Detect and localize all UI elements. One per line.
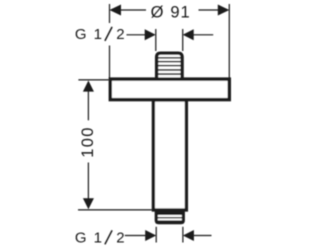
bottom thread slit 2 — [158, 218, 182, 220]
arrowhead 100 top up-pointing — [83, 81, 94, 92]
top thread stub outline — [157, 53, 183, 79]
ext line thread left — [155, 29, 157, 51]
thread line 3 — [158, 65, 182, 67]
thread line 2 — [158, 61, 182, 63]
svg-text:1: 1 — [94, 229, 102, 246]
arrowhead thread right left-pointing — [183, 29, 194, 40]
ext line bottom thread right — [182, 227, 184, 243]
svg-text:G: G — [75, 229, 87, 246]
ext line ceiling plane — [78, 79, 108, 81]
ext line pipe end — [78, 209, 152, 211]
arrowhead 100 bottom down-pointing — [83, 198, 94, 209]
svg-text:2: 2 — [116, 26, 124, 43]
arrowhead bottom left-pointing — [183, 230, 194, 241]
leader line G1/2 bottom — [125, 235, 146, 237]
svg-text:9: 9 — [170, 4, 179, 22]
tail line bottom right — [193, 235, 211, 237]
svg-text:G: G — [75, 26, 87, 43]
ext line bottom thread left — [155, 227, 157, 243]
dim line Ø91 right segment — [199, 9, 221, 11]
dim line 100 upper segment — [87, 91, 89, 120]
thread line 5 — [158, 73, 182, 75]
dim line Ø91 left segment — [119, 9, 146, 11]
bottom thread block — [155, 212, 185, 225]
arrowhead G1/2 top right-pointing — [145, 29, 156, 40]
arrowhead Ø91 left — [110, 5, 122, 16]
leader line G1/2 top — [127, 34, 147, 36]
svg-text:100: 100 — [79, 126, 97, 157]
dim ext line left (Ø91) lower — [109, 46, 111, 78]
dim line 100 lower segment — [87, 163, 89, 200]
arrowhead bottom right-pointing — [145, 230, 156, 241]
dim ext line left (Ø91) upper — [109, 4, 111, 23]
thread line 4 — [158, 69, 182, 71]
dim ext line right (Ø91) — [228, 4, 230, 78]
svg-text:1: 1 — [94, 26, 102, 43]
bottom thread slit 1 — [158, 215, 182, 217]
arrowhead Ø91 right — [218, 5, 230, 16]
pipe body — [153, 100, 186, 210]
ext line thread right — [182, 29, 184, 51]
svg-text:Ø: Ø — [151, 4, 164, 22]
svg-text:1: 1 — [181, 4, 190, 22]
tail line right of thread — [193, 34, 213, 36]
ceiling plate — [110, 79, 229, 100]
svg-text:2: 2 — [116, 229, 124, 246]
thread line 1 — [158, 57, 182, 59]
